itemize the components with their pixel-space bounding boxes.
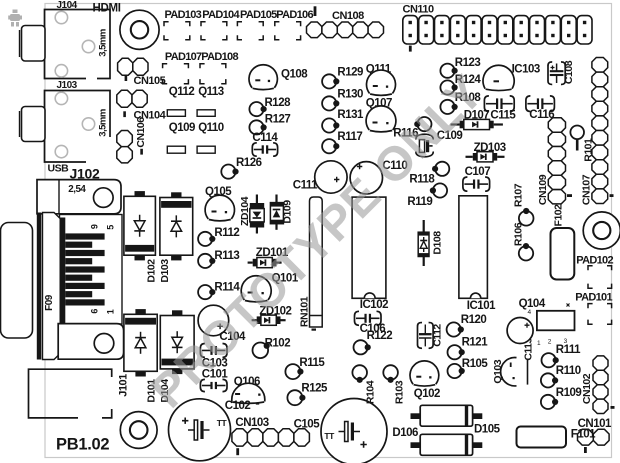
svg-text:Q109: Q109 xyxy=(169,122,195,134)
svg-text:IC101: IC101 xyxy=(467,300,496,312)
resistor R123 xyxy=(440,64,454,78)
DB9 outer shell xyxy=(1,223,33,339)
svg-text:CN109: CN109 xyxy=(537,174,549,205)
svg-text:R113: R113 xyxy=(214,250,239,262)
transistor Q106 xyxy=(232,383,265,401)
resistor network RN101 xyxy=(310,197,323,327)
connector CN110 pin header xyxy=(403,16,418,44)
pad PAD106 xyxy=(275,22,280,27)
svg-text:D103: D103 xyxy=(159,259,171,283)
capacitor C116 xyxy=(526,96,531,112)
connector CN107 xyxy=(592,58,608,73)
svg-text:ZD104: ZD104 xyxy=(239,196,251,226)
svg-text:R109: R109 xyxy=(556,387,582,399)
svg-text:Q102: Q102 xyxy=(414,388,440,400)
svg-text:C112: C112 xyxy=(432,324,444,347)
svg-text:C102: C102 xyxy=(225,400,251,412)
svg-text:F102: F102 xyxy=(553,204,565,227)
svg-text:PAD102: PAD102 xyxy=(576,255,613,267)
capacitor C104 xyxy=(198,305,229,336)
diode D109 xyxy=(275,195,277,203)
connector J101 outline xyxy=(29,369,112,418)
svg-text:C108: C108 xyxy=(563,60,575,84)
transistor Q111 xyxy=(367,70,396,93)
svg-text:RN101: RN101 xyxy=(298,296,310,327)
resistor R103 xyxy=(383,365,398,380)
diode D102 xyxy=(135,191,145,197)
pad PAD102 xyxy=(588,266,593,271)
connector CN106 xyxy=(117,131,133,147)
capacitor C103 xyxy=(200,344,205,358)
svg-text:5: 5 xyxy=(106,225,116,230)
transistor Q112 xyxy=(167,110,185,117)
resistor R105 xyxy=(448,364,462,378)
svg-text:PAD103: PAD103 xyxy=(165,9,202,21)
resistor R104 xyxy=(352,365,367,380)
svg-text:PAD106: PAD106 xyxy=(276,9,313,21)
svg-text:CN110: CN110 xyxy=(403,3,435,15)
svg-text:6: 6 xyxy=(90,309,100,314)
resistor R113 body (Q104 rect) xyxy=(537,311,575,331)
resistor R119 xyxy=(433,183,447,197)
diode D107 xyxy=(451,123,460,125)
capacitor C102 (electrolytic) xyxy=(169,399,231,461)
svg-text:Q103: Q103 xyxy=(492,359,504,383)
svg-text:PB1.02: PB1.02 xyxy=(56,436,109,454)
diode D105 xyxy=(411,413,421,419)
capacitor C110 xyxy=(350,162,382,194)
svg-text:R115: R115 xyxy=(299,357,325,369)
connector CN102 xyxy=(593,356,608,370)
DB9 face bar xyxy=(37,213,42,360)
pad PAD104 xyxy=(201,22,206,27)
svg-text:J103: J103 xyxy=(57,80,78,91)
capacitor C109 xyxy=(416,134,433,139)
svg-text:R110: R110 xyxy=(556,365,581,377)
svg-text:R119: R119 xyxy=(407,196,432,208)
resistor R117 xyxy=(322,139,336,153)
svg-text:R126: R126 xyxy=(236,157,262,169)
connector CN101 xyxy=(578,429,594,445)
resistor R116 xyxy=(417,117,431,131)
transistor Q113 xyxy=(197,110,215,117)
zener ZD104 xyxy=(256,195,258,204)
svg-text:D106: D106 xyxy=(392,427,418,439)
resistor R111 xyxy=(542,353,556,367)
DB9 pins xyxy=(65,233,104,239)
DB9 insert F09 xyxy=(43,213,64,360)
svg-text:CN102: CN102 xyxy=(581,373,593,404)
svg-text:9: 9 xyxy=(90,224,100,229)
pin mark right of PAD106 xyxy=(314,6,317,16)
svg-text:R130: R130 xyxy=(337,88,363,100)
svg-text:R131: R131 xyxy=(337,109,364,121)
DB9 body xyxy=(60,215,123,325)
transistor Q102 xyxy=(410,361,439,384)
mounting hole bottom-left xyxy=(120,412,157,449)
svg-text:CN105: CN105 xyxy=(134,75,166,87)
svg-text:C111: C111 xyxy=(293,179,318,191)
resistor R110 xyxy=(541,373,555,387)
svg-text:1: 1 xyxy=(106,309,116,314)
svg-text:R103: R103 xyxy=(393,380,405,404)
resistor R126 xyxy=(221,165,235,179)
svg-text:TT: TT xyxy=(217,418,228,428)
svg-text:Q110: Q110 xyxy=(198,122,224,134)
transistor Q104 xyxy=(507,318,533,344)
svg-text:R128: R128 xyxy=(265,97,292,109)
svg-text:CN108: CN108 xyxy=(332,10,364,22)
fuse F102 xyxy=(551,228,575,280)
capacitor C108 xyxy=(548,62,552,84)
resistor R127 xyxy=(249,120,263,134)
resistor R115 xyxy=(285,364,300,379)
svg-text:R101: R101 xyxy=(582,138,594,162)
svg-text:PAD104: PAD104 xyxy=(202,9,240,21)
svg-text:R121: R121 xyxy=(462,336,489,348)
pad PAD105 xyxy=(237,22,242,27)
connector J104 (3,5mm jack) xyxy=(45,10,111,79)
resistor R114 xyxy=(198,285,212,299)
op-amp IC103 xyxy=(483,65,514,88)
svg-text:C107: C107 xyxy=(465,166,491,178)
resistor R107 xyxy=(519,211,534,226)
resistor R106 xyxy=(519,246,533,260)
J103 barrel xyxy=(22,107,46,142)
capacitor C114 xyxy=(252,143,256,156)
svg-text:CN103: CN103 xyxy=(235,417,268,429)
svg-text:F09: F09 xyxy=(44,294,55,311)
zener diode ZD103 xyxy=(466,156,473,158)
capacitor C112 xyxy=(417,323,422,349)
connector CN105 xyxy=(118,58,133,75)
svg-text:HDMI: HDMI xyxy=(93,3,121,15)
diode D106 xyxy=(411,442,421,448)
svg-text:IC103: IC103 xyxy=(512,63,540,75)
svg-text:R129: R129 xyxy=(337,66,363,78)
svg-text:R105: R105 xyxy=(462,358,489,370)
mounting hole right xyxy=(583,212,620,249)
resistor R130 xyxy=(322,96,336,110)
svg-text:PAD107: PAD107 xyxy=(165,51,202,63)
resistor R108 xyxy=(440,100,454,114)
svg-text:R104: R104 xyxy=(364,380,376,404)
pad pin mark xyxy=(567,304,570,307)
svg-text:Q108: Q108 xyxy=(281,68,308,80)
fuse F101 xyxy=(517,427,567,448)
connector CN108 xyxy=(307,22,322,38)
svg-text:2,54: 2,54 xyxy=(68,184,86,195)
svg-text:USB: USB xyxy=(48,163,70,175)
IC IC102 xyxy=(352,197,386,298)
transistor Q103 xyxy=(501,358,517,386)
mounting hole top-left xyxy=(120,10,159,49)
connector J103 (3,5mm jack) xyxy=(45,91,111,163)
CN110 pin1 mark xyxy=(409,46,412,52)
svg-text:R123: R123 xyxy=(455,57,481,69)
J102 flange hole xyxy=(94,188,114,208)
resistor R101 xyxy=(570,126,584,140)
svg-text:R117: R117 xyxy=(337,131,362,143)
transistor Q108 xyxy=(249,65,277,88)
svg-text:R122: R122 xyxy=(367,330,393,342)
J104 barrel xyxy=(22,26,46,62)
svg-text:3,5mm: 3,5mm xyxy=(98,29,109,57)
resistor R124 xyxy=(440,80,454,94)
svg-text:Q113: Q113 xyxy=(198,86,224,98)
resistor R121 xyxy=(448,345,462,359)
svg-text:D102: D102 xyxy=(145,259,157,283)
capacitor C115 xyxy=(484,96,489,112)
J103 pad holes xyxy=(55,92,67,104)
capacitor C111 xyxy=(315,161,347,193)
svg-text:CN106: CN106 xyxy=(135,117,147,148)
resistor R102 xyxy=(252,343,268,359)
connector CN103 xyxy=(232,429,248,446)
resistor R120 xyxy=(447,322,461,336)
resistor R129 xyxy=(322,74,336,88)
svg-text:PAD105: PAD105 xyxy=(240,9,277,21)
svg-text:R107: R107 xyxy=(513,183,525,207)
diode D104 xyxy=(172,310,182,316)
pad PAD107 xyxy=(163,64,168,69)
diode D101 xyxy=(135,309,145,315)
transistor Q105 xyxy=(205,195,234,219)
transistor Q110 xyxy=(197,146,215,153)
resistor R125 xyxy=(287,390,302,405)
pad PAD108 xyxy=(200,64,205,69)
connector CN109 xyxy=(548,118,565,132)
svg-text:R106: R106 xyxy=(513,222,525,246)
svg-text:3,5mm: 3,5mm xyxy=(98,109,109,137)
capacitor C105 (electrolytic) xyxy=(321,399,387,463)
svg-text:R125: R125 xyxy=(301,382,328,394)
svg-text:Q104: Q104 xyxy=(519,298,546,310)
transistor Q107 xyxy=(366,106,396,130)
svg-text:PAD101: PAD101 xyxy=(575,292,612,304)
svg-text:D109: D109 xyxy=(282,200,294,224)
pad PAD103 xyxy=(164,22,169,27)
svg-text:R127: R127 xyxy=(265,113,291,125)
diode D103 xyxy=(171,192,181,198)
transistor Q101 xyxy=(241,276,271,300)
svg-text:TT: TT xyxy=(324,431,335,441)
capacitor C107 xyxy=(463,177,468,191)
svg-text:C105: C105 xyxy=(294,418,321,430)
connector CN104 xyxy=(117,90,132,107)
J102 bottom flange xyxy=(58,324,123,360)
svg-text:R111: R111 xyxy=(556,344,581,356)
resistor R112 xyxy=(198,232,212,246)
corner logo icon xyxy=(8,10,22,27)
zener diode ZD102 xyxy=(252,319,257,321)
resistor R128 xyxy=(249,102,263,116)
svg-text:CN107: CN107 xyxy=(580,174,592,205)
svg-text:F101: F101 xyxy=(571,428,596,440)
IC IC101 xyxy=(459,196,488,298)
transistor Q109 xyxy=(167,146,185,153)
svg-text:R112: R112 xyxy=(214,227,239,239)
svg-text:J101: J101 xyxy=(117,374,129,397)
svg-text:Q112: Q112 xyxy=(169,86,195,98)
zener diode ZD101 xyxy=(248,262,253,264)
svg-text:IC102: IC102 xyxy=(360,299,388,311)
J102 top flange xyxy=(37,180,121,214)
resistor R109 xyxy=(541,395,555,409)
pad PAD101 xyxy=(588,304,593,309)
DB9 pin spine xyxy=(60,218,66,325)
diode D108 xyxy=(423,220,425,232)
J102 bottom flange hole xyxy=(94,334,114,354)
svg-text:D105: D105 xyxy=(474,423,501,435)
capacitor C106 xyxy=(355,311,360,325)
resistor R122 xyxy=(354,340,368,354)
capacitor C101 xyxy=(200,379,205,391)
svg-text:D108: D108 xyxy=(432,231,444,255)
svg-text:PAD108: PAD108 xyxy=(201,51,238,63)
resistor R131 xyxy=(322,118,336,132)
resistor R113 xyxy=(198,254,212,268)
J104 pad holes xyxy=(55,11,67,23)
svg-text:R120: R120 xyxy=(461,314,487,326)
resistor R118 xyxy=(435,162,449,176)
